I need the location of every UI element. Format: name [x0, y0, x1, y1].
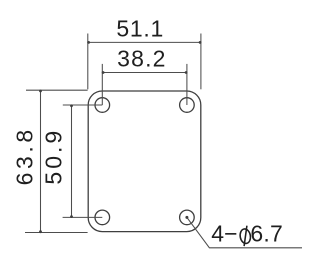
arrow dot 38.2 right: [185, 71, 188, 74]
arrow dot 51.1 right: [199, 41, 202, 44]
dimension line 50.9: [71, 105, 73, 217]
extension line left for 38.2: [101, 64, 103, 105]
extension line top for 63.8: [26, 89, 88, 91]
extension line right for 51.1: [200, 34, 202, 90]
phi symbol (drawn): [239, 226, 252, 246]
svg-text:4−: 4−: [211, 220, 238, 246]
hole bottom-right: [180, 210, 195, 225]
svg-text:51.1: 51.1: [116, 16, 164, 42]
hole bottom-left: [95, 210, 110, 225]
arrow dot 63.8 bottom: [39, 230, 42, 233]
arrow dot 38.2 left: [102, 71, 105, 74]
extension line bottom for 50.9: [63, 216, 103, 218]
dimension line 38.2: [102, 72, 187, 74]
arrow dot 50.9 top: [70, 104, 73, 107]
arrow dot 63.8 top: [39, 90, 42, 93]
svg-text:63.8: 63.8: [11, 126, 37, 185]
dimension line 51.1: [88, 41, 201, 43]
arrow dot 51.1 left: [87, 41, 90, 44]
hole top-left: [95, 98, 110, 113]
svg-text:6.7: 6.7: [250, 220, 283, 246]
leader line for hole callout: [187, 217, 302, 247]
extension line top for 50.9: [63, 104, 103, 106]
extension line left for 51.1: [87, 34, 89, 90]
dimension line 63.8: [40, 90, 42, 232]
hole top-right: [180, 98, 195, 113]
extension line right for 38.2: [186, 64, 188, 105]
svg-text:50.9: 50.9: [41, 128, 67, 185]
extension line bottom for 63.8: [25, 232, 88, 234]
svg-text:38.2: 38.2: [117, 46, 167, 72]
neck plate outline: [88, 91, 201, 232]
arrow dot 50.9 bottom: [70, 215, 73, 218]
leader dot at hole center: [185, 216, 188, 219]
